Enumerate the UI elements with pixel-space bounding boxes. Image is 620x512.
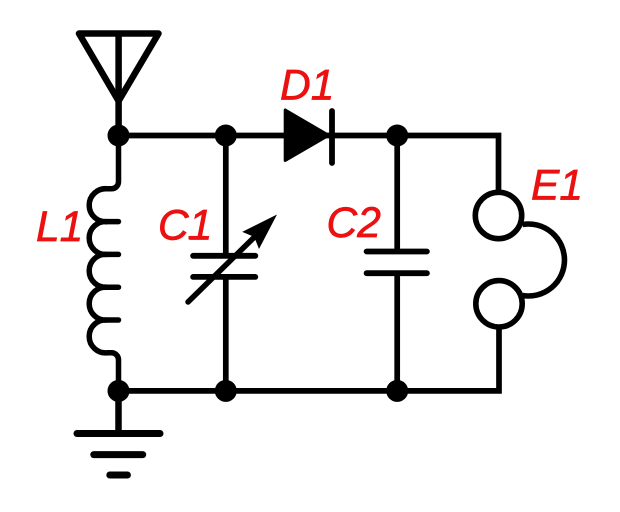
capacitor C1: [193, 256, 255, 277]
svg-text:C2: C2: [327, 200, 382, 247]
label L1: [36, 204, 83, 251]
wire bottom rail with right corner: [119, 327, 500, 391]
wire C1 top: [223, 136, 229, 254]
svg-text:E1: E1: [531, 163, 583, 210]
svg-text:C1: C1: [158, 202, 212, 249]
node bottom-C2: [386, 380, 408, 402]
node bottom-C1: [215, 380, 237, 402]
antenna: [79, 34, 159, 136]
wire C2 bottom: [394, 276, 400, 391]
node top-left: [108, 125, 130, 147]
arrow of C1: [188, 237, 255, 303]
label D1: [280, 62, 334, 109]
wire C2 top: [394, 136, 400, 250]
diode D1: [285, 110, 332, 163]
inductor L1: [89, 136, 118, 391]
wire top rail with right corner: [119, 136, 499, 194]
capacitor C2: [367, 252, 427, 274]
earphone E1: [475, 192, 564, 327]
ground: [77, 390, 160, 475]
wire C1 bottom: [223, 280, 229, 391]
svg-text:D1: D1: [280, 62, 334, 109]
node top-C1: [215, 125, 237, 147]
node top-C2: [386, 125, 408, 147]
svg-text:L1: L1: [36, 204, 83, 251]
label E1: [531, 163, 583, 210]
label C2: [327, 200, 382, 247]
label C1: [158, 202, 212, 249]
node bottom-left: [108, 380, 130, 402]
